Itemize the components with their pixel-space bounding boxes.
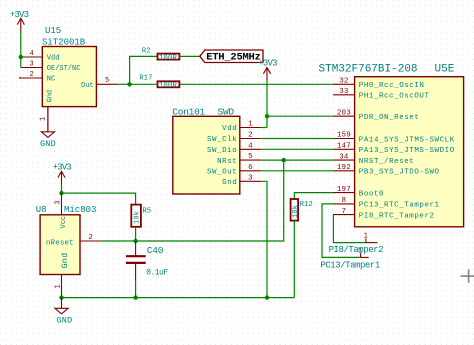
svg-text:4: 4 [30,50,34,58]
wire Vcc to R5 [62,193,136,205]
svg-text:1: 1 [55,284,63,288]
svg-text:Gnd: Gnd [60,253,70,269]
junction NRst node [282,158,286,162]
connector Con101 SWD [172,107,240,195]
STM32 pin 34 NRST_/Reset [333,153,355,161]
wire PC13 tamper [322,204,361,258]
test point pin 1 (PI8) [364,233,378,243]
svg-text:R2: R2 [142,47,151,55]
power +3V3 (Mic803) [53,163,72,194]
Con101 pin 6 SW_Out [240,164,261,172]
svg-text:7: 7 [342,208,347,216]
svg-text:1: 1 [364,233,368,241]
junction rail/C40 [133,295,137,299]
Mic803 pin 3 Vcc [55,193,63,215]
svg-text:STM32F767BI-208: STM32F767BI-208 [319,64,418,76]
svg-text:PB3_SYS_JTDO-SWO: PB3_SYS_JTDO-SWO [359,169,440,177]
ground (rail) [55,298,73,326]
Mic803 pin 1 Gnd [55,275,63,298]
svg-text:PA13_SYS_JTMS-SWDIO: PA13_SYS_JTMS-SWDIO [359,147,455,155]
svg-text:8: 8 [342,197,347,205]
wire R12 to ground rail [293,221,295,298]
ground rail wire [62,297,295,299]
U15 pin 4 Vdd [21,50,43,58]
junction nReset/R5/C40 [133,239,137,243]
svg-text:nReset: nReset [46,240,74,248]
STM32 pin 147 PA13_SYS_JTMS-SWDIO [333,143,355,151]
svg-text:3: 3 [30,61,34,69]
Con101 pin 3 Gnd [240,174,261,182]
svg-text:SW_Clk: SW_Clk [207,136,237,144]
svg-text:Boot0: Boot0 [359,190,384,198]
svg-text:PH1_Rcc_OscOUT: PH1_Rcc_OscOUT [359,93,430,101]
wire Con101 Gnd down to rail [261,181,267,297]
wire NRst down-left to nReset [102,160,284,241]
svg-text:PH0_Rcc_OscIN: PH0_Rcc_OscIN [359,82,425,90]
MCU U5E STM32F767BI-208 [319,64,464,227]
STM32 pin 203 PDR_ON_Reset [333,109,355,117]
svg-text:Vdd: Vdd [47,55,60,63]
svg-text:2: 2 [30,71,34,79]
svg-text:10k: 10k [292,205,300,218]
svg-text:Out: Out [81,82,94,90]
supervisor U8 Mic803 [36,205,97,275]
U15 pin 5 Out [96,77,118,85]
wire junction to R17 [130,83,158,85]
wire SW_Out to PB3 [261,170,333,172]
svg-text:100R: 100R [159,54,178,62]
svg-text:GND: GND [57,315,73,325]
U15 pin 3 OE [21,61,43,69]
svg-text:Con101: Con101 [172,107,205,118]
svg-text:Vdd: Vdd [222,125,237,133]
Con101 pin 4 SW_Dio [240,142,261,150]
svg-text:PA14_SYS_JTMS-SWCLK: PA14_SYS_JTMS-SWCLK [359,136,455,144]
svg-text:2: 2 [88,234,93,242]
svg-text:203: 203 [337,109,351,117]
svg-text:1: 1 [40,117,48,121]
wire PDR_ON_Reset [267,115,333,117]
svg-text:C40: C40 [147,245,164,256]
svg-text:33: 33 [339,88,349,96]
resistor R2 100R [142,47,180,62]
STM32 pin 7 PI8_RTC_Tamper2 [333,208,355,216]
test point pin 1 (PC13) [358,247,368,257]
wire PI8 tamper [333,215,366,243]
STM32 pin 8 PC13_RTC_Tamper1 [333,197,355,205]
svg-text:5: 5 [105,77,109,85]
global label ETH_25MHz [200,50,263,64]
svg-text:SiT2001B: SiT2001B [42,37,86,47]
resistor R5 10k [131,205,151,227]
wire junction up to R2 [130,56,158,84]
wire U15 Out to junction [118,83,130,85]
svg-text:R12: R12 [300,201,313,209]
ground (U15) [40,107,56,149]
svg-text:U8: U8 [36,205,47,215]
svg-text:SW_Out: SW_Out [207,169,237,177]
wire SW_Dio to PA13 [261,148,333,150]
svg-text:6: 6 [248,164,253,172]
wire Boot0 to R12 [294,193,333,199]
svg-text:147: 147 [337,143,351,151]
svg-text:100R: 100R [159,82,178,90]
U15 pin 2 NC [19,71,42,79]
power +3V3 (U15) [10,10,29,57]
svg-text:U5E: U5E [435,64,455,76]
svg-text:2: 2 [248,132,253,140]
svg-text:Vcc: Vcc [60,216,68,229]
resistor R17 100R [139,74,179,90]
Con101 pin 2 SW_Clk [240,132,261,140]
svg-text:ETH_25MHz: ETH_25MHz [206,52,260,64]
svg-text:Gnd: Gnd [222,179,237,187]
svg-text:3: 3 [248,174,253,182]
svg-text:R17: R17 [139,74,152,82]
wire Con101 Vdd [261,127,267,129]
junction rail/Mic Gnd [59,295,63,299]
svg-text:Mic803: Mic803 [64,205,96,215]
svg-text:10k: 10k [134,211,142,224]
svg-text:PC13_RTC_Tamper1: PC13_RTC_Tamper1 [359,202,440,210]
svg-text:Gnd: Gnd [46,90,54,103]
Con101 pin 5 NRst [240,153,261,161]
resistor R12 10k [291,199,313,221]
junction at U15 Vdd [19,55,23,59]
svg-text:159: 159 [337,132,351,140]
svg-text:1: 1 [248,121,253,129]
svg-text:+3V3: +3V3 [10,10,29,20]
svg-text:32: 32 [339,78,348,86]
svg-text:NRst: NRst [217,158,237,166]
wire +3V3 to U15 pin3 [20,57,22,68]
wire SW_Clk to PA14 [261,138,333,140]
wire NRst to NRST [261,159,333,161]
STM32 pin 197 Boot0 [333,186,355,194]
svg-text:34: 34 [339,153,349,161]
capacitor C40 0.1uF [126,241,168,280]
svg-text:SWD: SWD [218,107,235,118]
svg-text:R5: R5 [143,208,152,216]
svg-text:NRST_/Reset: NRST_/Reset [359,158,415,166]
U15 pin 1 Gnd [40,107,48,132]
svg-text:PI8_RTC_Tamper2: PI8_RTC_Tamper2 [359,212,435,220]
STM32 pin 33 PH1_Rcc_OscOUT [333,88,355,96]
junction node Out [127,82,131,86]
Con101 pin 1 Vdd [240,121,261,129]
STM32 pin 192 PB3_SYS_JTDO-SWO [333,164,355,172]
wire R2 to ETH label [179,55,200,57]
STM32 pin 32 PH0_Rcc_OscIN [333,78,355,86]
oscillator U15 [42,26,96,107]
svg-text:5: 5 [248,153,253,161]
svg-text:+3V3: +3V3 [258,58,277,68]
svg-text:NC: NC [47,76,55,84]
svg-text:PI8/Tamper2: PI8/Tamper2 [329,245,384,255]
wire R17 to STM32 pin 32 [179,83,333,85]
power +3V3 (SWD/PDR) [258,58,277,116]
junction PDR node [265,114,269,118]
svg-text:0.1uF: 0.1uF [146,268,168,277]
svg-text:192: 192 [337,164,351,172]
svg-text:GND: GND [40,139,56,149]
STM32 pin 159 PA14_SYS_JTMS-SWCLK [333,132,355,140]
svg-text:197: 197 [337,186,351,194]
svg-text:4: 4 [248,142,253,150]
junction Vcc node [59,191,63,195]
wire +3V3 down to Con101 Vdd [266,116,268,127]
svg-text:U15: U15 [45,26,61,36]
svg-text:3: 3 [55,200,63,204]
junction rail/SWD Gnd [265,295,269,299]
svg-text:PC13/Tamper1: PC13/Tamper1 [320,261,379,271]
svg-text:SW_Dio: SW_Dio [207,147,237,155]
cursor crosshair [461,269,474,282]
wire C40 to rail [135,280,137,298]
Mic803 pin 2 nReset [80,234,102,242]
svg-text:OE/ST/NC: OE/ST/NC [47,65,81,73]
svg-text:PDR_ON_Reset: PDR_ON_Reset [359,114,420,122]
wire R5 to junction [135,227,137,241]
